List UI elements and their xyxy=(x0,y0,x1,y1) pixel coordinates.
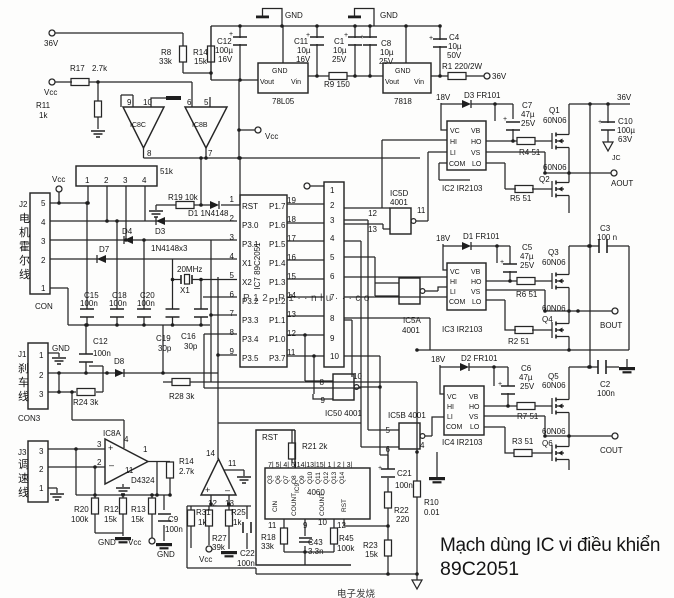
svg-text:3: 3 xyxy=(39,390,44,399)
svg-text:18V: 18V xyxy=(436,234,451,243)
svg-text:C4: C4 xyxy=(449,33,460,42)
svg-text:12: 12 xyxy=(368,209,377,218)
svg-text:调: 调 xyxy=(18,458,29,471)
svg-text:100n: 100n xyxy=(109,299,127,308)
svg-text:50V: 50V xyxy=(447,51,462,60)
svg-text:–: – xyxy=(225,485,230,495)
svg-text:Q9: Q9 xyxy=(299,475,306,484)
svg-text:6: 6 xyxy=(330,272,335,281)
svg-text:HO: HO xyxy=(469,404,480,411)
svg-text:100n: 100n xyxy=(137,299,155,308)
svg-text:VB: VB xyxy=(471,269,481,276)
svg-text:Q3: Q3 xyxy=(548,248,559,257)
svg-text:C16: C16 xyxy=(181,332,196,341)
svg-text:5: 5 xyxy=(41,199,46,208)
svg-text:16: 16 xyxy=(287,253,296,262)
svg-text:1N4148x3: 1N4148x3 xyxy=(151,244,188,253)
svg-text:速: 速 xyxy=(18,472,29,485)
svg-text:4: 4 xyxy=(41,218,46,227)
svg-text:2: 2 xyxy=(330,201,335,210)
svg-text:RST: RST xyxy=(341,499,348,512)
svg-text:+: + xyxy=(108,443,113,453)
svg-text:100µ: 100µ xyxy=(617,126,635,135)
svg-text:COM: COM xyxy=(446,424,463,431)
svg-text:R8: R8 xyxy=(161,48,172,57)
svg-text:+: + xyxy=(205,485,210,495)
svg-text:R14: R14 xyxy=(193,48,208,57)
svg-text:18V: 18V xyxy=(436,93,451,102)
svg-text:IC7 89C2051: IC7 89C2051 xyxy=(253,242,262,290)
svg-text:C7: C7 xyxy=(522,101,533,110)
svg-text:机: 机 xyxy=(19,225,30,239)
svg-text:220: 220 xyxy=(396,515,410,524)
svg-text:Q6: Q6 xyxy=(275,475,282,484)
svg-text:VC: VC xyxy=(450,128,460,135)
svg-text:车: 车 xyxy=(18,375,29,389)
svg-text:BOUT: BOUT xyxy=(600,321,622,330)
svg-text:25V: 25V xyxy=(520,382,535,391)
svg-text:0.01: 0.01 xyxy=(424,508,440,517)
svg-text:P3.0: P3.0 xyxy=(242,221,259,230)
svg-text:电子发烧: 电子发烧 xyxy=(337,588,376,598)
svg-text:AOUT: AOUT xyxy=(611,179,633,188)
svg-text:R22: R22 xyxy=(394,506,409,515)
svg-text:15k: 15k xyxy=(194,57,208,66)
svg-text:D3 FR101: D3 FR101 xyxy=(464,91,501,100)
svg-text:Vcc: Vcc xyxy=(44,88,57,97)
svg-text:R18: R18 xyxy=(261,533,276,542)
svg-text:LI: LI xyxy=(450,150,456,157)
svg-text:5: 5 xyxy=(204,98,209,107)
svg-text:JC: JC xyxy=(612,155,621,162)
svg-text:60N06: 60N06 xyxy=(543,116,567,125)
svg-text:HI: HI xyxy=(450,139,457,146)
svg-text:25V: 25V xyxy=(520,261,535,270)
svg-text:Q12: Q12 xyxy=(323,471,330,484)
svg-text:1k: 1k xyxy=(39,111,48,120)
svg-text:P3.4: P3.4 xyxy=(242,335,259,344)
svg-text:30p: 30p xyxy=(158,344,172,353)
svg-text:D3: D3 xyxy=(155,227,166,236)
svg-text:4060: 4060 xyxy=(307,488,325,497)
svg-text:100k: 100k xyxy=(337,544,355,553)
svg-text:2.7k: 2.7k xyxy=(92,64,108,73)
svg-text:HI: HI xyxy=(447,404,454,411)
svg-text:COUT: COUT xyxy=(600,446,623,455)
svg-text:10: 10 xyxy=(330,352,339,361)
svg-text:COM: COM xyxy=(449,299,466,306)
svg-text:IC9: IC9 xyxy=(294,483,301,494)
svg-text:+: + xyxy=(378,465,382,472)
svg-text:R21 2k: R21 2k xyxy=(302,442,328,451)
svg-text:D1 FR101: D1 FR101 xyxy=(463,232,500,241)
svg-text:Q3: Q3 xyxy=(267,475,274,484)
svg-text:IC4 IR2103: IC4 IR2103 xyxy=(442,438,483,447)
svg-text:GND: GND xyxy=(157,550,175,559)
svg-text:线: 线 xyxy=(18,389,29,403)
svg-text:COM: COM xyxy=(449,161,466,168)
svg-text:Mạch dùng IC vi điều khiển: Mạch dùng IC vi điều khiển xyxy=(440,535,660,556)
svg-text:R5 51: R5 51 xyxy=(510,194,532,203)
svg-text:电: 电 xyxy=(19,212,30,225)
svg-text:R24 3k: R24 3k xyxy=(73,398,99,407)
svg-text:60N06: 60N06 xyxy=(542,258,566,267)
svg-text:6: 6 xyxy=(187,98,192,107)
svg-text:CON: CON xyxy=(35,302,53,311)
svg-text:Q7: Q7 xyxy=(283,475,290,484)
svg-text:2: 2 xyxy=(104,176,109,185)
svg-text:+: + xyxy=(344,32,348,39)
svg-text:X1: X1 xyxy=(180,286,190,295)
svg-text:100n: 100n xyxy=(165,525,183,534)
svg-text:P3.7: P3.7 xyxy=(269,354,286,363)
svg-text:R13: R13 xyxy=(131,505,146,514)
svg-text:LI: LI xyxy=(450,289,456,296)
svg-text:7818: 7818 xyxy=(394,97,412,106)
svg-text:15k: 15k xyxy=(365,550,379,559)
svg-text:VC: VC xyxy=(447,394,457,401)
svg-text:P12·P1··nlu···co: P12·P1··nlu···co xyxy=(243,293,373,304)
svg-text:R11: R11 xyxy=(36,101,51,110)
svg-text:R23: R23 xyxy=(363,541,378,550)
svg-text:C3: C3 xyxy=(600,224,611,233)
svg-text:HI: HI xyxy=(450,279,457,286)
svg-text:R14: R14 xyxy=(179,457,194,466)
svg-text:1: 1 xyxy=(85,176,90,185)
svg-text:+: + xyxy=(498,381,502,388)
svg-text:3: 3 xyxy=(123,176,128,185)
svg-text:33k: 33k xyxy=(261,542,275,551)
svg-text:刹: 刹 xyxy=(18,362,29,375)
svg-text:2: 2 xyxy=(39,371,44,380)
svg-text:4001: 4001 xyxy=(390,198,408,207)
svg-text:+: + xyxy=(306,32,310,39)
svg-text:VS: VS xyxy=(469,414,479,421)
svg-text:X1: X1 xyxy=(242,259,252,268)
svg-text:2: 2 xyxy=(97,458,102,467)
svg-text:J1: J1 xyxy=(18,350,27,359)
svg-text:18V: 18V xyxy=(431,355,446,364)
svg-text:线: 线 xyxy=(18,485,29,499)
svg-text:D8: D8 xyxy=(114,357,125,366)
svg-text:R9 150: R9 150 xyxy=(324,80,350,89)
svg-text:4: 4 xyxy=(142,176,147,185)
svg-text:7: 7 xyxy=(208,149,213,158)
svg-text:C21: C21 xyxy=(397,469,412,478)
svg-text:3: 3 xyxy=(330,216,335,225)
svg-text:+: + xyxy=(429,35,433,42)
svg-text:1: 1 xyxy=(330,186,335,195)
svg-text:P1.4: P1.4 xyxy=(269,259,286,268)
svg-text:R2 51: R2 51 xyxy=(508,337,530,346)
svg-text:P1.5: P1.5 xyxy=(269,240,286,249)
svg-text:1: 1 xyxy=(39,351,44,360)
svg-text:VC: VC xyxy=(450,269,460,276)
svg-text:R27: R27 xyxy=(212,534,227,543)
svg-text:+: + xyxy=(598,119,602,126)
svg-text:Q14: Q14 xyxy=(339,471,346,484)
svg-text:C22: C22 xyxy=(240,549,255,558)
svg-text:Q13: Q13 xyxy=(331,471,338,484)
svg-text:IC5B 4001: IC5B 4001 xyxy=(388,411,426,420)
svg-text:R20: R20 xyxy=(74,505,89,514)
svg-text:11: 11 xyxy=(125,466,134,475)
svg-text:J2: J2 xyxy=(19,200,28,209)
svg-text:47µ: 47µ xyxy=(519,373,533,382)
svg-text:15k: 15k xyxy=(131,515,145,524)
svg-text:2.7k: 2.7k xyxy=(179,467,195,476)
svg-text:LO: LO xyxy=(470,424,480,431)
svg-text:P3.1: P3.1 xyxy=(242,240,259,249)
svg-text:20MHz: 20MHz xyxy=(177,265,202,274)
svg-text:VS: VS xyxy=(471,289,481,296)
svg-text:Vout: Vout xyxy=(385,79,399,86)
svg-text:+: + xyxy=(360,34,364,41)
svg-text:15: 15 xyxy=(287,272,296,281)
svg-text:P1.6: P1.6 xyxy=(269,221,286,230)
svg-text:IC8B: IC8B xyxy=(192,122,208,129)
svg-text:GND: GND xyxy=(52,344,70,353)
svg-text:2: 2 xyxy=(230,214,235,223)
svg-text:11: 11 xyxy=(417,206,426,215)
svg-text:Vcc: Vcc xyxy=(265,132,278,141)
svg-text:5: 5 xyxy=(330,253,335,262)
svg-text:100n: 100n xyxy=(80,299,98,308)
svg-text:8: 8 xyxy=(330,314,335,323)
svg-text:GND: GND xyxy=(98,538,116,547)
svg-text:9: 9 xyxy=(127,98,132,107)
svg-text:P1.3: P1.3 xyxy=(269,278,286,287)
svg-text:D7: D7 xyxy=(99,245,110,254)
svg-text:P1.7: P1.7 xyxy=(269,202,286,211)
svg-text:13: 13 xyxy=(368,225,377,234)
svg-text:25V: 25V xyxy=(332,55,347,64)
svg-text:89C2051: 89C2051 xyxy=(440,558,519,580)
svg-text:8: 8 xyxy=(230,328,235,337)
svg-text:17: 17 xyxy=(287,234,296,243)
svg-text:R12: R12 xyxy=(104,505,119,514)
svg-text:47µ: 47µ xyxy=(521,110,535,119)
svg-text:IC2 IR2103: IC2 IR2103 xyxy=(442,184,483,193)
svg-text:RST: RST xyxy=(242,202,258,211)
svg-text:Vin: Vin xyxy=(414,79,424,86)
svg-text:R10: R10 xyxy=(424,498,439,507)
svg-text:4001: 4001 xyxy=(402,326,420,335)
svg-text:2: 2 xyxy=(39,465,44,474)
svg-text:60N06: 60N06 xyxy=(542,381,566,390)
svg-text:COUNT: COUNT xyxy=(291,493,298,516)
svg-text:10µ: 10µ xyxy=(297,46,311,55)
svg-text:R45: R45 xyxy=(339,534,354,543)
svg-text:J3: J3 xyxy=(18,448,27,457)
svg-text:16V: 16V xyxy=(296,55,311,64)
svg-text:4: 4 xyxy=(330,234,335,243)
svg-text:C9: C9 xyxy=(168,515,179,524)
svg-text:36V: 36V xyxy=(44,39,59,48)
svg-text:3: 3 xyxy=(39,447,44,456)
svg-text:Q10: Q10 xyxy=(307,471,314,484)
svg-text:39k: 39k xyxy=(212,543,226,552)
svg-text:14: 14 xyxy=(206,449,215,458)
svg-text:Vcc: Vcc xyxy=(199,555,212,564)
svg-text:+: + xyxy=(229,31,233,38)
svg-text:1: 1 xyxy=(41,284,46,293)
svg-text:6: 6 xyxy=(230,290,235,299)
svg-text:IC8A: IC8A xyxy=(103,429,121,438)
svg-text:Vout: Vout xyxy=(260,79,274,86)
svg-text:3: 3 xyxy=(41,237,46,246)
svg-text:4: 4 xyxy=(230,252,235,261)
svg-text:–: – xyxy=(109,460,114,470)
svg-text:P1.0: P1.0 xyxy=(269,335,286,344)
svg-text:VB: VB xyxy=(471,128,481,135)
svg-text:100µ: 100µ xyxy=(215,46,233,55)
svg-text:5: 5 xyxy=(230,271,235,280)
svg-text:CON3: CON3 xyxy=(18,414,41,423)
svg-text:60N06: 60N06 xyxy=(543,163,567,172)
svg-text:10µ: 10µ xyxy=(333,46,347,55)
svg-text:P3.5: P3.5 xyxy=(242,354,259,363)
svg-text:36V: 36V xyxy=(617,93,632,102)
svg-text:1: 1 xyxy=(230,195,235,204)
svg-text:C2: C2 xyxy=(600,380,611,389)
svg-text:11: 11 xyxy=(268,521,277,530)
svg-text:IC50 4001: IC50 4001 xyxy=(325,409,362,418)
svg-text:CIN: CIN xyxy=(272,501,279,513)
svg-text:Q1: Q1 xyxy=(549,106,560,115)
svg-text:63V: 63V xyxy=(618,135,633,144)
svg-text:R6 51: R6 51 xyxy=(516,290,538,299)
svg-text:1: 1 xyxy=(143,445,148,454)
svg-text:R28 3k: R28 3k xyxy=(169,392,195,401)
svg-text:D4: D4 xyxy=(122,227,133,236)
svg-text:100k: 100k xyxy=(71,515,89,524)
svg-text:100n: 100n xyxy=(93,349,111,358)
svg-text:1k: 1k xyxy=(198,518,207,527)
svg-text:2: 2 xyxy=(41,256,46,265)
svg-text:R31: R31 xyxy=(196,508,211,517)
svg-text:C43: C43 xyxy=(308,538,323,547)
svg-text:10µ: 10µ xyxy=(380,48,394,57)
svg-text:+: + xyxy=(500,259,504,266)
svg-text:Q5: Q5 xyxy=(548,372,559,381)
svg-text:IC3 IR2103: IC3 IR2103 xyxy=(442,325,483,334)
svg-text:3: 3 xyxy=(230,233,235,242)
svg-text:LO: LO xyxy=(472,299,482,306)
svg-text:25V: 25V xyxy=(521,119,536,128)
svg-text:8: 8 xyxy=(320,378,325,387)
svg-text:HO: HO xyxy=(471,279,482,286)
svg-text:P1.1: P1.1 xyxy=(269,316,286,325)
svg-text:100n: 100n xyxy=(237,559,255,568)
svg-text:1: 1 xyxy=(39,484,44,493)
svg-text:10: 10 xyxy=(318,518,327,527)
svg-text:Q11: Q11 xyxy=(315,472,322,484)
svg-text:LO: LO xyxy=(472,161,482,168)
svg-text:9: 9 xyxy=(330,334,335,343)
svg-text:+: + xyxy=(503,116,507,123)
svg-text:P3.3: P3.3 xyxy=(242,316,259,325)
svg-text:4: 4 xyxy=(420,441,425,450)
svg-text:C8: C8 xyxy=(381,39,392,48)
svg-text:IC5D: IC5D xyxy=(390,189,408,198)
svg-text:33k: 33k xyxy=(159,57,173,66)
svg-text:IC8C: IC8C xyxy=(130,122,146,129)
svg-text:D4324: D4324 xyxy=(131,476,155,485)
svg-text:GND: GND xyxy=(285,11,303,20)
svg-text:13: 13 xyxy=(287,310,296,319)
svg-text:X2: X2 xyxy=(242,278,252,287)
svg-text:4: 4 xyxy=(124,435,129,444)
svg-text:12: 12 xyxy=(287,329,296,338)
svg-text:8: 8 xyxy=(147,149,152,158)
svg-text:VB: VB xyxy=(469,394,479,401)
svg-text:R19 10k: R19 10k xyxy=(168,193,199,202)
svg-text:1k: 1k xyxy=(233,518,242,527)
svg-text:10µ: 10µ xyxy=(448,42,462,51)
svg-text:R1 220/2W: R1 220/2W xyxy=(442,62,482,71)
svg-text:C5: C5 xyxy=(522,243,533,252)
svg-text:47µ: 47µ xyxy=(520,252,534,261)
svg-text:78L05: 78L05 xyxy=(272,97,295,106)
svg-text:36V: 36V xyxy=(492,72,507,81)
svg-text:GND: GND xyxy=(380,11,398,20)
svg-text:Vcc: Vcc xyxy=(52,175,65,184)
svg-text:D2 FR101: D2 FR101 xyxy=(461,354,498,363)
svg-text:100n: 100n xyxy=(395,481,413,490)
svg-text:100n: 100n xyxy=(597,389,615,398)
svg-text:D1 1N4148: D1 1N4148 xyxy=(188,209,229,218)
svg-text:线: 线 xyxy=(19,267,30,281)
svg-text:HO: HO xyxy=(471,139,482,146)
svg-text:GND: GND xyxy=(395,68,411,75)
svg-text:25V: 25V xyxy=(379,57,394,66)
svg-text:Q8: Q8 xyxy=(291,475,298,484)
svg-text:C10: C10 xyxy=(618,117,633,126)
svg-text:15k: 15k xyxy=(104,515,118,524)
svg-text:IC5A: IC5A xyxy=(403,316,421,325)
svg-text:C12: C12 xyxy=(93,337,108,346)
svg-text:R3 51: R3 51 xyxy=(512,437,534,446)
svg-text:7: 7 xyxy=(230,309,235,318)
svg-text:C6: C6 xyxy=(521,364,532,373)
svg-text:16V: 16V xyxy=(218,55,233,64)
svg-text:Vin: Vin xyxy=(291,79,301,86)
svg-text:11: 11 xyxy=(228,459,237,468)
svg-text:VS: VS xyxy=(471,150,481,157)
svg-text:GND: GND xyxy=(272,68,288,75)
svg-text:C12: C12 xyxy=(217,37,232,46)
svg-text:51k: 51k xyxy=(160,167,174,176)
svg-text:尔: 尔 xyxy=(19,254,30,267)
svg-text:R25: R25 xyxy=(231,508,246,517)
svg-text:RST: RST xyxy=(262,433,278,442)
svg-text:9: 9 xyxy=(321,396,326,405)
svg-text:霍: 霍 xyxy=(19,240,30,253)
svg-text:Vcc: Vcc xyxy=(128,538,141,547)
svg-text:LI: LI xyxy=(447,414,453,421)
svg-text:R17: R17 xyxy=(70,64,85,73)
svg-text:3: 3 xyxy=(97,440,102,449)
svg-text:Q2: Q2 xyxy=(539,175,550,184)
svg-text:30p: 30p xyxy=(184,342,198,351)
